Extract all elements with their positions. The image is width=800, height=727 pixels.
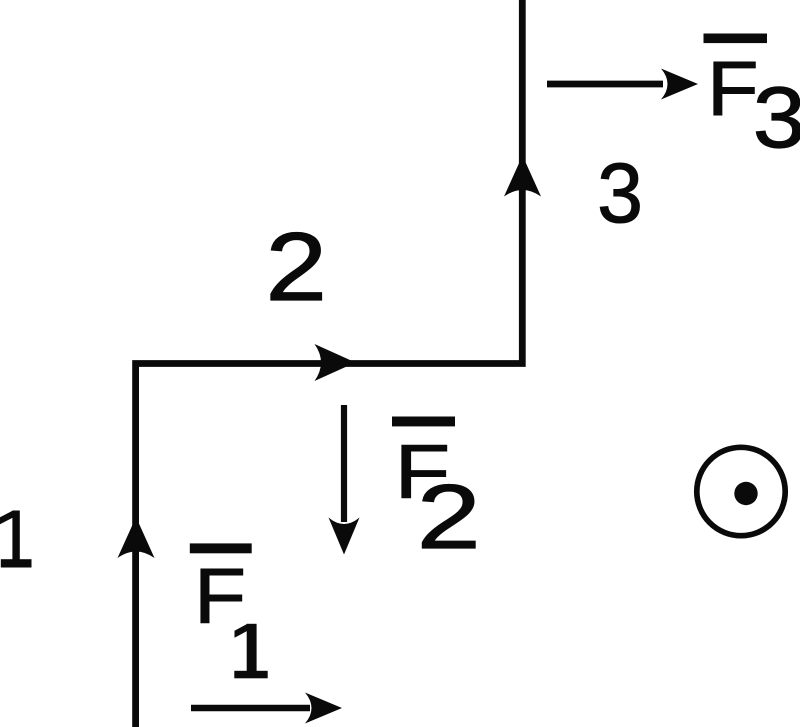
label F1 bar xyxy=(190,543,252,553)
label 1 (segment 1, cut by left edge) xyxy=(0,511,32,568)
svg-text:2: 2 xyxy=(417,466,481,568)
current arrow segment 2 xyxy=(315,344,356,381)
svg-text:3: 3 xyxy=(753,70,800,166)
label F3 subscript 3 xyxy=(753,70,800,166)
label F1 letter F xyxy=(194,554,246,641)
force arrow F3 xyxy=(547,69,698,100)
svg-text:F: F xyxy=(194,554,246,641)
svg-text:2: 2 xyxy=(266,212,327,320)
label 3 (segment 3) xyxy=(597,145,643,240)
force arrow F1 xyxy=(191,693,342,724)
current arrow segment 3 xyxy=(504,156,541,197)
label F3 bar xyxy=(704,34,768,44)
current arrow segment 1 xyxy=(118,517,155,558)
label F1 subscript 1 xyxy=(234,624,267,679)
label F2 letter F xyxy=(395,429,451,514)
label F2 bar xyxy=(392,417,455,427)
label 2 (segment 2) xyxy=(266,212,327,320)
svg-text:F: F xyxy=(707,46,759,132)
label F2 subscript 2 xyxy=(417,466,481,568)
force arrow F2 xyxy=(329,405,360,555)
label F3 letter F xyxy=(707,46,759,132)
field symbol B out of page: outer circle xyxy=(697,447,785,535)
wire (segments 1,2,3 polyline) xyxy=(136,0,523,727)
svg-text:3: 3 xyxy=(597,145,643,240)
field symbol B out of page: center dot xyxy=(734,482,757,505)
